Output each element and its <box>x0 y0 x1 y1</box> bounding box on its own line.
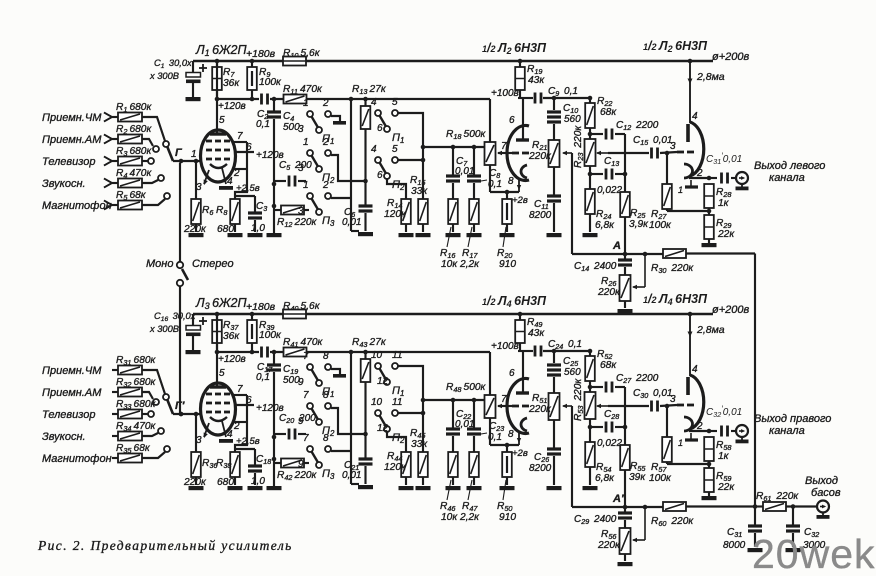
svg-text:4: 4 <box>692 111 698 122</box>
wire <box>112 413 118 415</box>
ground <box>702 496 717 500</box>
wire grid <box>173 160 201 162</box>
svg-text:3: 3 <box>298 163 304 174</box>
svg-text:Телевизор: Телевизор <box>42 156 96 168</box>
svg-text:910: 910 <box>499 512 516 523</box>
resistor R25 <box>620 192 630 217</box>
capacitor C11 <box>553 167 555 195</box>
wire <box>506 224 508 232</box>
ground <box>416 486 431 490</box>
svg-text:560: 560 <box>564 114 581 125</box>
potentiometer R51 <box>549 393 560 420</box>
svg-text:9: 9 <box>298 416 304 427</box>
cathode arc <box>210 417 227 421</box>
mono/stereo switch <box>179 163 181 261</box>
wire <box>731 430 736 432</box>
svg-text:43к: 43к <box>528 75 545 86</box>
svg-text:7: 7 <box>237 384 243 395</box>
capacitor C6 <box>359 204 373 207</box>
svg-text:0,1: 0,1 <box>256 372 270 383</box>
grid dashes <box>206 140 212 143</box>
input arrow <box>104 201 112 210</box>
svg-text:+120в: +120в <box>256 403 284 414</box>
wire <box>660 405 677 406</box>
svg-text:R53 220к: R53 220к <box>573 378 585 421</box>
svg-text:C9 0,1: C9 0,1 <box>548 86 578 98</box>
capacitor C1 (electrolytic) <box>192 61 194 73</box>
wire <box>708 239 710 243</box>
ground <box>358 485 373 489</box>
ground <box>446 486 461 490</box>
junction <box>643 252 648 257</box>
wire <box>142 370 165 394</box>
plus sign <box>199 67 207 69</box>
svg-text:0,01: 0,01 <box>342 470 361 481</box>
wire <box>667 463 709 465</box>
wire <box>708 461 710 468</box>
junction <box>623 252 628 257</box>
wire <box>489 165 491 192</box>
svg-text:100к: 100к <box>649 473 672 484</box>
junction <box>363 432 368 437</box>
ground <box>399 486 414 490</box>
wire <box>473 224 475 232</box>
wire feedback <box>571 406 573 507</box>
ground <box>358 232 373 236</box>
junction <box>363 179 368 184</box>
svg-text:2,2к: 2,2к <box>459 512 480 523</box>
wire <box>142 433 158 436</box>
wire <box>518 97 533 99</box>
resistor R31 <box>118 366 142 375</box>
wire <box>709 430 717 432</box>
label callout <box>468 480 472 500</box>
junction <box>588 96 593 101</box>
svg-text:8000: 8000 <box>723 540 746 551</box>
selector contact FM <box>163 141 169 147</box>
junction bass mix <box>753 504 758 509</box>
input arrow <box>104 113 112 122</box>
svg-text:220к: 220к <box>183 477 207 488</box>
wire node A <box>572 506 663 508</box>
resistor R22 <box>585 103 595 128</box>
svg-text:+120в: +120в <box>218 354 246 365</box>
wire <box>195 224 197 232</box>
switch П3 left <box>298 180 335 228</box>
potentiometer R21 <box>549 140 560 167</box>
capacitor C16 (electrolytic) <box>192 314 194 326</box>
heater arrow pin 3 <box>204 423 209 437</box>
svg-text:1к: 1к <box>718 451 730 462</box>
ground <box>748 548 763 552</box>
capacitor C19 <box>273 352 275 364</box>
wire node A <box>572 253 663 255</box>
svg-text:Моно: Моно <box>146 258 173 270</box>
resistor R17 <box>469 199 479 224</box>
wire grid <box>173 413 201 415</box>
wire <box>234 477 236 485</box>
ground <box>248 233 263 237</box>
svg-text:+2в: +2в <box>512 195 528 206</box>
svg-text:ø+200в: ø+200в <box>712 304 749 316</box>
svg-text:R23 220к: R23 220к <box>573 125 585 168</box>
anode lead <box>522 98 524 140</box>
svg-text:3: 3 <box>670 141 676 152</box>
wire <box>112 138 118 140</box>
junction <box>272 435 277 440</box>
wire <box>667 210 709 212</box>
junction <box>707 176 712 181</box>
resistor R2 <box>118 135 142 144</box>
resistor R61 <box>755 505 763 507</box>
ground <box>547 486 562 490</box>
capacitor C28 <box>590 426 603 428</box>
svg-text:2: 2 <box>322 137 329 148</box>
wire <box>708 492 710 496</box>
wire <box>112 369 118 371</box>
junction <box>215 350 220 355</box>
selector contact AM <box>153 146 159 152</box>
svg-text:680: 680 <box>217 224 234 235</box>
contact Stereo <box>177 280 183 286</box>
svg-text:220к: 220к <box>528 151 552 162</box>
resistor R35 <box>118 454 142 463</box>
svg-text:8: 8 <box>508 429 514 440</box>
svg-text:4: 4 <box>227 176 233 187</box>
ground <box>228 486 243 490</box>
capacitor C8 <box>473 147 475 175</box>
cathode arc <box>684 164 693 178</box>
cathode lead with arrow <box>518 178 520 192</box>
svg-text:C12 2200: C12 2200 <box>616 120 659 132</box>
resistor R6 <box>191 199 201 224</box>
ground <box>583 486 598 490</box>
ground <box>186 97 201 101</box>
svg-text:Выход правого: Выход правого <box>754 413 831 425</box>
svg-text:6: 6 <box>509 115 515 126</box>
wire <box>589 351 591 356</box>
resistor R27 <box>662 184 672 209</box>
resistor R7 <box>216 61 218 67</box>
anode bar <box>210 385 226 388</box>
svg-text:C32′0,01: C32′0,01 <box>706 405 742 420</box>
resistor R9 <box>251 61 253 67</box>
junction <box>215 59 220 64</box>
wire to right channel <box>179 286 181 413</box>
wire <box>608 152 649 154</box>
svg-text:ø+200в: ø+200в <box>712 51 749 63</box>
ground <box>547 233 562 237</box>
resistor R29 <box>704 215 714 239</box>
capacitor C15 <box>650 148 653 159</box>
ground <box>416 233 431 237</box>
junction <box>623 505 628 510</box>
wire <box>624 301 626 308</box>
resistor R28 <box>704 184 714 208</box>
resistor R30 <box>663 249 686 258</box>
grid dashes <box>206 393 212 396</box>
anode lead <box>216 314 218 387</box>
capacitor C31 <box>754 507 756 526</box>
wire <box>608 405 649 407</box>
svg-text:68к: 68к <box>600 360 617 371</box>
svg-text:+120в: +120в <box>256 150 284 161</box>
svg-text:А′: А′ <box>612 493 625 505</box>
wire <box>405 224 407 232</box>
capacitor C31' <box>720 173 723 184</box>
cathode lead pin 4 <box>222 168 226 184</box>
svg-text:2,8ма: 2,8ма <box>696 71 725 83</box>
wire <box>195 477 197 485</box>
wiper arrow R23 <box>597 405 608 407</box>
svg-text:Выход левого: Выход левого <box>754 160 825 172</box>
svg-text:680: 680 <box>217 477 234 488</box>
resistor R47 <box>469 452 479 477</box>
grid lead <box>498 152 512 154</box>
potentiometer R56 <box>620 528 631 554</box>
wire grid leak <box>195 161 197 199</box>
svg-text:R12 220к: R12 220к <box>277 217 318 229</box>
capacitor C21 <box>359 457 373 460</box>
wire <box>589 128 591 139</box>
grid dashes <box>512 152 519 155</box>
svg-text:7: 7 <box>501 141 507 152</box>
wire <box>142 180 158 183</box>
wire <box>473 477 475 485</box>
svg-text:5: 5 <box>392 144 398 155</box>
junction <box>791 504 796 509</box>
resistor R40 <box>283 310 306 319</box>
resistor R8 <box>230 199 240 224</box>
svg-text:1: 1 <box>191 149 197 160</box>
resistor R55 <box>620 445 630 470</box>
heater arrow pin 3 <box>204 170 209 184</box>
svg-text:2: 2 <box>233 421 240 432</box>
right pin bracket <box>234 394 247 396</box>
capacitor C14 <box>624 254 626 259</box>
input arrow <box>104 135 112 144</box>
cathode lead pin 4 <box>222 421 226 437</box>
label callout <box>503 480 506 500</box>
svg-text:+120в: +120в <box>218 101 246 112</box>
anode bar <box>686 124 690 142</box>
cathode arc <box>521 418 527 431</box>
input arrow <box>104 179 112 188</box>
junction <box>250 97 255 102</box>
svg-text:1: 1 <box>303 98 309 109</box>
power rail +200V <box>193 60 283 62</box>
capacitor C24 <box>534 346 537 357</box>
svg-text:R60 220к: R60 220к <box>651 516 694 528</box>
grid lead <box>498 405 512 407</box>
ground <box>702 243 717 247</box>
svg-text:3,9к: 3,9к <box>629 219 649 230</box>
grid dashes <box>677 151 684 154</box>
svg-text:R18 500к: R18 500к <box>446 129 487 141</box>
resistor R57 <box>662 437 672 462</box>
wire +120V bus <box>217 351 259 353</box>
anode bar <box>686 377 690 395</box>
svg-text:2: 2 <box>322 180 329 191</box>
junction <box>215 97 220 102</box>
cathode bar <box>685 185 698 188</box>
svg-text:220к: 220к <box>597 540 621 551</box>
junction <box>179 412 184 417</box>
bracket to cathode resistor <box>235 169 247 199</box>
cathode out wire <box>689 177 709 179</box>
anode lead <box>216 61 218 134</box>
svg-text:Магнитофон: Магнитофон <box>42 200 112 212</box>
ground <box>446 233 461 237</box>
wire feedback <box>571 153 573 254</box>
capacitor C4 <box>273 99 275 111</box>
svg-text:120к: 120к <box>384 462 407 473</box>
junction <box>421 158 426 163</box>
wiper arrow R23 <box>597 152 608 154</box>
wire <box>489 418 491 445</box>
capacitor C22 <box>452 400 454 428</box>
svg-text:4: 4 <box>371 144 377 155</box>
junction <box>250 312 255 317</box>
ground <box>189 486 204 490</box>
svg-text:C24 0,1: C24 0,1 <box>548 339 582 351</box>
svg-text:Рис. 2. Предварительный усил: Рис. 2. Предварительный усилитель <box>37 538 293 553</box>
svg-text:6: 6 <box>246 395 252 406</box>
wire <box>589 166 591 189</box>
resistor R11 <box>284 95 307 104</box>
ground <box>248 486 263 490</box>
switch П2 right <box>371 397 405 445</box>
wire +120V bus <box>217 98 259 100</box>
wire <box>112 204 118 206</box>
wire <box>690 180 692 187</box>
junction <box>688 59 693 64</box>
junction <box>272 204 277 209</box>
contact Mono <box>177 262 183 268</box>
junction <box>215 312 220 317</box>
svg-text:R30 220к: R30 220к <box>651 263 694 275</box>
resistor R49 <box>519 314 521 320</box>
svg-text:х 300В: х 300В <box>149 71 179 81</box>
wire <box>624 217 626 254</box>
svg-text:Магнитофон: Магнитофон <box>42 453 112 465</box>
wire <box>142 392 153 399</box>
capacitor C10 <box>553 98 555 110</box>
wiper arrow <box>498 152 511 154</box>
wire <box>364 382 366 458</box>
label callout <box>447 227 451 247</box>
triode U4-a envelope <box>507 379 529 434</box>
svg-text:8: 8 <box>323 390 329 401</box>
capacitor C5 <box>274 180 286 182</box>
capacitor C30 <box>650 401 653 412</box>
wire <box>506 445 508 452</box>
wire from R30 to bass mix <box>754 254 756 508</box>
label callout <box>447 480 451 500</box>
svg-text:4: 4 <box>692 364 698 375</box>
ground <box>618 309 633 313</box>
potentiometer R53 <box>585 392 596 419</box>
svg-text:Приемн.АМ: Приемн.АМ <box>42 387 102 399</box>
svg-text:Приемн.ЧМ: Приемн.ЧМ <box>42 112 102 124</box>
svg-text:10к: 10к <box>441 259 458 270</box>
contact stub <box>331 116 340 121</box>
resistor R60 <box>663 502 686 511</box>
junction <box>588 349 593 354</box>
wire <box>490 191 519 193</box>
svg-text:+180в: +180в <box>246 48 276 60</box>
junction <box>250 59 255 64</box>
anode bar <box>516 391 529 394</box>
svg-text:C5 200: C5 200 <box>279 160 312 172</box>
capacitor C13 <box>590 173 603 175</box>
wiper arrow <box>644 507 646 540</box>
resistor R10 <box>283 57 306 66</box>
switch П1 left <box>298 98 334 146</box>
wire <box>666 462 668 464</box>
junction <box>363 97 368 102</box>
svg-text:Стерео: Стерео <box>192 258 234 270</box>
wire <box>490 444 519 446</box>
output connector <box>736 172 748 184</box>
resistor R20 <box>502 199 512 224</box>
junction <box>518 59 523 64</box>
screen stub <box>236 151 254 153</box>
label callout <box>481 433 487 434</box>
wire <box>112 457 118 459</box>
svg-text:C31′0,01: C31′0,01 <box>706 152 742 167</box>
resistor R58 <box>704 437 714 461</box>
input arrow <box>104 135 112 144</box>
wire <box>518 350 533 352</box>
ground <box>186 350 201 354</box>
contact stub <box>331 369 340 374</box>
wire grid leak <box>195 414 197 452</box>
svg-text:4: 4 <box>227 429 233 440</box>
wire to volume pot <box>489 99 491 142</box>
wire <box>589 419 591 442</box>
svg-text:5: 5 <box>219 115 225 126</box>
svg-text:1,0: 1,0 <box>251 223 265 234</box>
ground <box>500 486 515 490</box>
svg-text:Л3 6Ж2П: Л3 6Ж2П <box>195 296 247 311</box>
wire <box>660 152 677 153</box>
cathode lead with arrow <box>518 431 520 445</box>
selector contact TV <box>148 158 154 164</box>
junction <box>552 96 557 101</box>
svg-text:11: 11 <box>392 350 402 361</box>
junction <box>194 159 199 164</box>
svg-text:R42 220к: R42 220к <box>277 470 318 482</box>
wire <box>304 462 309 464</box>
svg-text:Выход: Выход <box>805 475 838 487</box>
resistor R50 <box>502 452 512 477</box>
label callout <box>503 227 506 247</box>
svg-text:1: 1 <box>678 438 683 448</box>
wire <box>731 177 736 179</box>
svg-text:R61 220к: R61 220к <box>756 491 799 503</box>
triode U2-b envelope <box>690 122 704 176</box>
capacitor C29 <box>624 507 626 512</box>
selector contact pickup <box>158 428 164 434</box>
wire <box>398 159 423 161</box>
potentiometer R18 <box>485 142 496 165</box>
resistor R19 <box>519 61 521 67</box>
wire <box>274 209 281 211</box>
wire <box>666 209 668 211</box>
switch П1 left <box>298 351 334 399</box>
wire <box>387 178 406 199</box>
